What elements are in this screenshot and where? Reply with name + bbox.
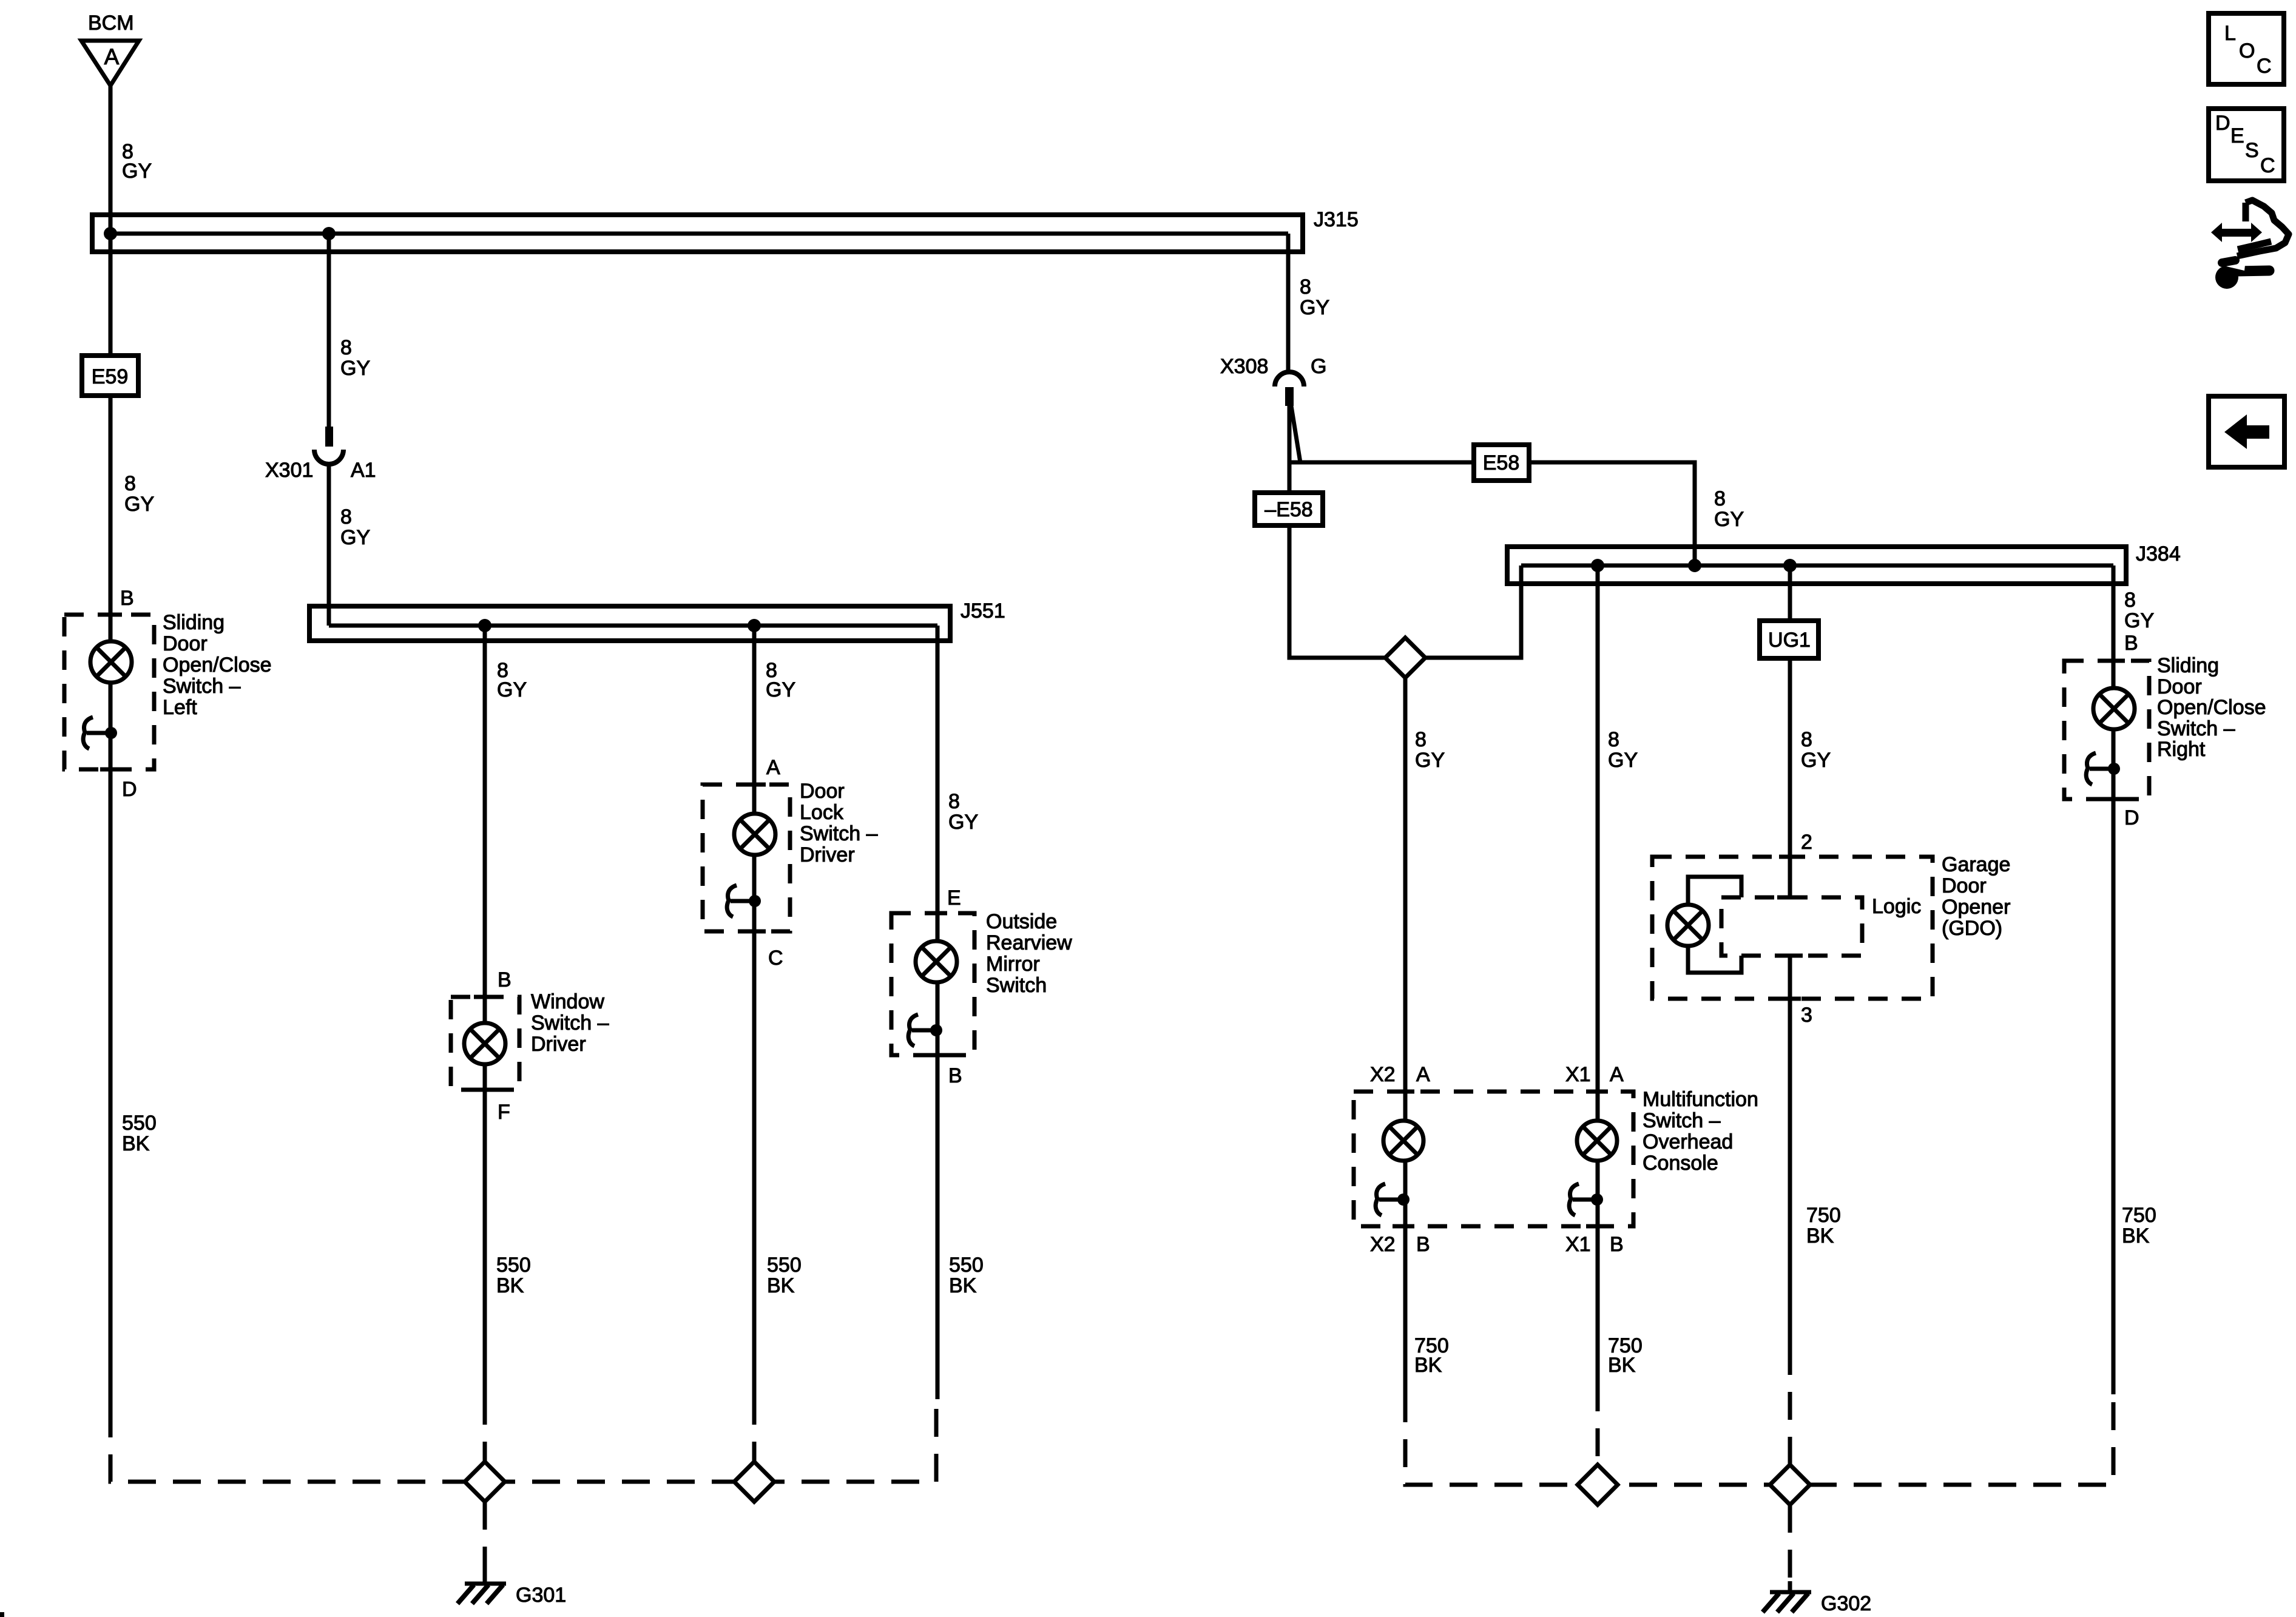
svg-text:B: B (498, 968, 512, 991)
svg-text:B: B (2124, 632, 2138, 655)
junction dot on J551 at window switch wire (478, 619, 491, 632)
ground G301 (458, 1573, 566, 1607)
svg-text:8: 8 (1415, 728, 1427, 751)
ground G302 (1763, 1581, 1871, 1615)
svg-text:UG1: UG1 (1768, 629, 1811, 652)
wire J315 to X308 (1286, 234, 1291, 373)
svg-text:J315: J315 (1314, 208, 1359, 231)
svg-text:GY: GY (948, 811, 978, 834)
svg-text:A: A (1416, 1063, 1430, 1086)
svg-text:X1: X1 (1565, 1233, 1591, 1256)
icon LOC box (2209, 13, 2284, 84)
connector UG1 (1760, 621, 1818, 658)
svg-text:G302: G302 (1821, 1592, 1871, 1615)
svg-text:750: 750 (2122, 1204, 2156, 1227)
svg-text:E: E (2230, 124, 2244, 147)
svg-text:Switch –: Switch – (1643, 1109, 1721, 1132)
svg-text:Door: Door (1942, 874, 1987, 897)
wire J384 through UG1 to GDO (1788, 565, 1792, 897)
svg-text:550: 550 (949, 1254, 984, 1277)
svg-text:E59: E59 (92, 365, 129, 388)
svg-text:BK: BK (949, 1274, 977, 1297)
svg-text:8: 8 (340, 505, 352, 528)
svg-text:X2: X2 (1370, 1233, 1396, 1256)
svg-text:GY: GY (497, 678, 527, 701)
svg-text:A: A (104, 44, 120, 69)
svg-text:J551: J551 (961, 599, 1005, 623)
svg-text:GY: GY (1300, 296, 1329, 319)
svg-text:GY: GY (2124, 609, 2154, 632)
svg-text:Open/Close: Open/Close (163, 653, 272, 677)
dashed wire pin3 to ground bus (1788, 1347, 1792, 1485)
svg-text:BK: BK (1608, 1354, 1636, 1377)
icon DESC box (2209, 109, 2284, 181)
svg-text:8: 8 (340, 336, 352, 359)
svg-text:BK: BK (2122, 1224, 2150, 1247)
svg-text:BK: BK (1806, 1224, 1834, 1247)
svg-text:F: F (498, 1101, 510, 1124)
svg-text:B: B (1416, 1233, 1430, 1256)
window switch driver (451, 968, 609, 1124)
svg-text:A: A (1610, 1063, 1624, 1086)
svg-text:A1: A1 (351, 459, 376, 482)
svg-text:L: L (2224, 22, 2236, 45)
connector -E58 (1255, 493, 1323, 525)
slanted wire X308 to horizontal run (1291, 406, 1300, 462)
svg-text:Opener: Opener (1942, 896, 2010, 919)
svg-text:C: C (768, 947, 783, 970)
svg-text:X2: X2 (1370, 1063, 1396, 1086)
svg-text:Open/Close: Open/Close (2157, 696, 2266, 719)
svg-text:E58: E58 (1483, 451, 1520, 474)
wire -E58 to diamond splice to J384 (1289, 525, 1521, 658)
svg-text:GY: GY (340, 526, 370, 549)
svg-text:B: B (1610, 1233, 1624, 1256)
svg-text:GY: GY (766, 678, 795, 701)
svg-text:Rearview: Rearview (986, 931, 1072, 954)
svg-text:C: C (2257, 55, 2272, 78)
junction dot on J315 at X301 wire (322, 227, 336, 240)
svg-text:Overhead: Overhead (1643, 1130, 1733, 1153)
splice diamond on ground bus (door lock) (734, 1462, 774, 1502)
svg-text:Lock: Lock (800, 801, 844, 824)
svg-text:GY: GY (1801, 749, 1831, 772)
svg-text:Window: Window (531, 990, 604, 1013)
wire X301 to J551 (327, 465, 331, 626)
wire X308 to -E58 and E58 run (1288, 406, 1292, 493)
connector E59 (82, 356, 138, 396)
ground bus right dashed (1405, 1394, 2113, 1485)
svg-text:BK: BK (1414, 1354, 1442, 1377)
svg-text:G301: G301 (516, 1584, 566, 1607)
svg-text:C: C (2260, 154, 2275, 177)
svg-text:BK: BK (122, 1132, 150, 1155)
dashed wire window to ground bus (483, 1397, 487, 1482)
svg-text:D: D (2215, 112, 2230, 135)
junction dot on J551 at door lock wire (748, 619, 761, 632)
svg-text:BK: BK (496, 1274, 524, 1297)
splice diamond on ground bus (window) (465, 1462, 505, 1502)
garage door opener GDO (1652, 853, 2010, 999)
svg-text:Driver: Driver (531, 1033, 586, 1056)
svg-text:Switch –: Switch – (531, 1011, 609, 1035)
wire J315 to X301 (327, 234, 331, 427)
wire J384 right end to sliding door right (2112, 565, 2116, 1394)
splice diamond on right ground bus (X1) (1578, 1465, 1618, 1505)
connector triangle A from BCM (81, 41, 139, 86)
svg-text:Switch: Switch (986, 974, 1047, 997)
icon connector disconnect with double arrow (2211, 200, 2289, 256)
icon back arrow box (2209, 396, 2284, 467)
dashed wire door lock to ground bus (752, 1397, 757, 1482)
svg-text:X308: X308 (1220, 355, 1268, 378)
wire to E58 (1289, 461, 1474, 465)
svg-text:GY: GY (340, 357, 370, 380)
svg-text:Logic: Logic (1872, 895, 1921, 918)
svg-text:B: B (120, 587, 134, 610)
dashed stub to G302 (1788, 1505, 1792, 1581)
splice pack J384 (1507, 542, 2181, 584)
dashed wire X1 to ground bus (1596, 1383, 1600, 1485)
connector X301 pin A1 (265, 427, 376, 482)
svg-text:8: 8 (2124, 589, 2136, 612)
svg-text:8: 8 (1300, 275, 1311, 299)
svg-text:X1: X1 (1565, 1063, 1591, 1086)
junction dot on J384 at UG1 wire (1783, 559, 1797, 572)
dashed stub to G301 (483, 1502, 487, 1573)
svg-text:A: A (766, 756, 780, 779)
svg-text:550: 550 (122, 1112, 157, 1135)
splice diamond on right ground bus (pin3) (1770, 1465, 1810, 1505)
svg-text:Mirror: Mirror (986, 953, 1040, 976)
ground bus left dashed (110, 1399, 936, 1482)
wire J551 right end to mirror switch (936, 626, 940, 1399)
sliding door open/close switch left (64, 587, 272, 801)
svg-text:GY: GY (1714, 508, 1744, 531)
svg-text:550: 550 (767, 1254, 802, 1277)
svg-text:Garage: Garage (1942, 853, 2010, 876)
svg-text:Right: Right (2157, 738, 2206, 761)
svg-text:Multifunction: Multifunction (1643, 1088, 1758, 1111)
wire J384 to multifunction X1 (1596, 565, 1600, 1383)
svg-text:Outside: Outside (986, 910, 1057, 933)
wire GDO pin 3 down (1788, 956, 1792, 1347)
pin ticks on dashed boxes (100, 615, 2125, 1226)
svg-text:Driver: Driver (800, 843, 855, 866)
wire E58 to J384 (1529, 462, 1695, 565)
door lock switch driver (703, 756, 878, 970)
svg-text:(GDO): (GDO) (1942, 917, 2002, 940)
svg-text:Switch –: Switch – (2157, 717, 2235, 740)
splice diamond near -E58 (1385, 638, 1425, 678)
splice pack J315 (92, 208, 1359, 252)
connector E58 (1474, 445, 1529, 481)
svg-text:3: 3 (1801, 1004, 1812, 1027)
svg-text:G: G (1311, 355, 1326, 378)
wire J551 to window switch to ground bus (483, 626, 487, 1397)
svg-text:GY: GY (122, 160, 152, 183)
sliding door open/close switch right (2064, 654, 2266, 829)
svg-text:GY: GY (1415, 749, 1445, 772)
multifunction switch overhead console (1354, 1063, 1758, 1256)
svg-text:8: 8 (124, 472, 136, 495)
svg-text:E: E (947, 886, 961, 910)
outside rearview mirror switch (891, 886, 1072, 1087)
svg-text:Switch –: Switch – (163, 675, 241, 698)
svg-text:D: D (2124, 806, 2139, 829)
svg-text:Sliding: Sliding (163, 611, 225, 634)
svg-text:Switch –: Switch – (800, 822, 878, 845)
wire BCM to J315 to E59 to sliding door switch left (109, 86, 113, 1409)
svg-text:8: 8 (1801, 728, 1812, 751)
connector X308 pin G (1220, 355, 1326, 406)
svg-text:Console: Console (1643, 1152, 1718, 1175)
svg-text:GY: GY (124, 493, 154, 516)
svg-text:J384: J384 (2136, 542, 2181, 565)
svg-text:8: 8 (948, 790, 960, 813)
svg-text:8: 8 (1608, 728, 1619, 751)
svg-text:–E58: –E58 (1264, 498, 1312, 521)
svg-text:BCM: BCM (88, 12, 134, 35)
svg-text:BK: BK (767, 1274, 795, 1297)
splice pack J551 (309, 599, 1005, 641)
svg-text:O: O (2239, 39, 2255, 62)
svg-text:750: 750 (1806, 1204, 1841, 1227)
svg-text:B: B (948, 1064, 962, 1087)
svg-text:S: S (2245, 139, 2259, 162)
svg-text:D: D (122, 778, 137, 801)
wire diamond to multifunction X2 (1403, 678, 1408, 1394)
svg-text:Left: Left (163, 696, 197, 719)
svg-text:Door: Door (2157, 675, 2202, 698)
svg-text:Sliding: Sliding (2157, 654, 2219, 677)
icon wrench (2215, 260, 2269, 289)
svg-text:GY: GY (1608, 749, 1638, 772)
svg-text:X301: X301 (265, 459, 313, 482)
wire J551 to door lock switch to ground bus (752, 626, 757, 1397)
page corner artifact dot (0, 1612, 4, 1617)
svg-text:8: 8 (1714, 487, 1726, 510)
svg-text:550: 550 (496, 1254, 531, 1277)
svg-text:2: 2 (1801, 831, 1812, 854)
junction dot on J384 at left end entry (1688, 559, 1701, 572)
svg-text:Door: Door (800, 780, 845, 803)
junction dot on J315 at BCM wire (104, 227, 117, 240)
svg-text:Door: Door (163, 632, 208, 655)
junction dot on J384 at X1 wire (1591, 559, 1604, 572)
